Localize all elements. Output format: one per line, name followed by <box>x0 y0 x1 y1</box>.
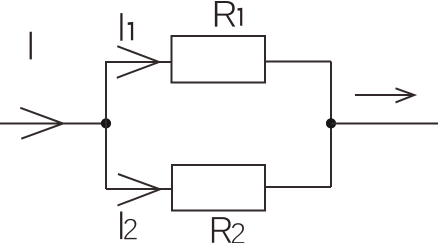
wire top branch right <box>266 61 331 63</box>
node B (right junction) <box>326 118 336 128</box>
wire bottom branch left <box>106 188 172 190</box>
label I2 subscript 2 <box>124 218 137 239</box>
label R1 subscript 1 <box>238 8 243 26</box>
label I1 subscript 1 <box>128 22 134 40</box>
wire output <box>331 123 438 125</box>
label I2 <box>120 211 123 240</box>
resistor R2 <box>172 165 265 211</box>
label R2 <box>211 217 232 243</box>
node A (left junction) <box>101 118 111 128</box>
resistor R1 <box>172 36 266 83</box>
label I1 <box>120 13 123 42</box>
arrow I2 <box>118 174 161 206</box>
label R2 subscript 2 <box>231 223 244 243</box>
wire input <box>0 123 106 125</box>
wire top branch left <box>105 61 171 63</box>
wire right vertical <box>330 62 332 188</box>
arrow I (input current) <box>20 108 63 139</box>
wire left vertical <box>105 62 107 189</box>
arrow output current <box>355 88 414 102</box>
label I <box>29 31 32 60</box>
label R1 <box>214 1 236 28</box>
arrow I1 <box>117 46 159 78</box>
wire bottom branch right <box>266 186 331 188</box>
